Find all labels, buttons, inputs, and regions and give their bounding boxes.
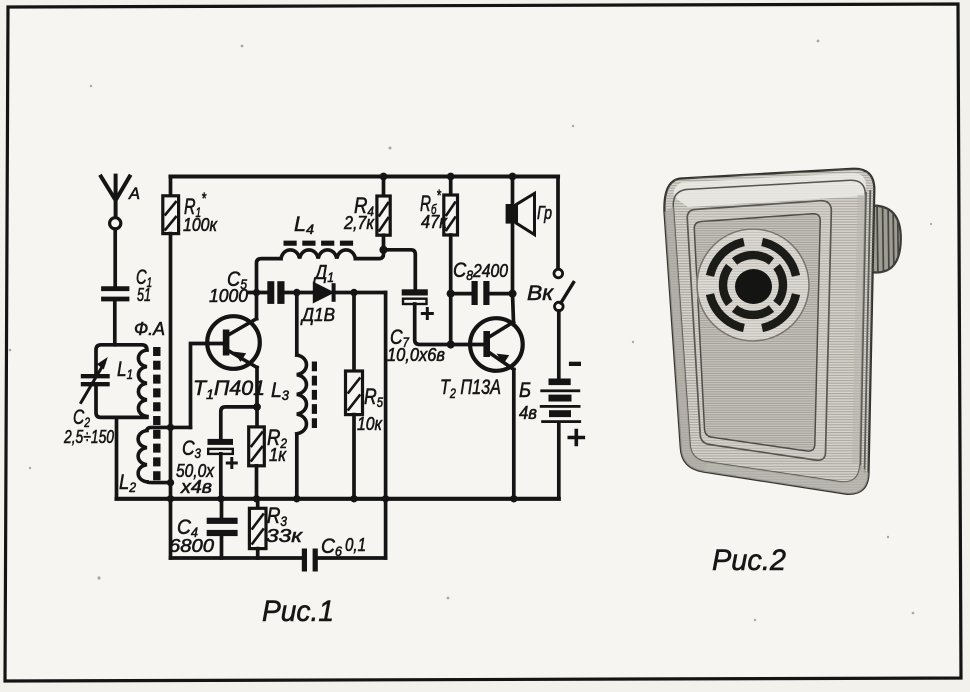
label C6 0,1 — [321, 535, 366, 559]
radio case body — [664, 169, 874, 494]
capacitor C1 — [104, 289, 128, 345]
resistor R6 — [444, 177, 458, 345]
right inner shade — [852, 195, 865, 465]
junction node C6 leg rail — [382, 495, 389, 502]
transistor T2 П13А — [470, 318, 523, 371]
label C2 2,5÷150 — [63, 406, 114, 447]
label R6* 47к — [420, 186, 448, 232]
svg-text:0,1: 0,1 — [345, 535, 366, 555]
wire T1 emitter down to R2 — [255, 368, 259, 427]
wire switch to battery — [557, 311, 561, 379]
label R1* 100к — [183, 189, 218, 235]
inner seam line — [673, 180, 865, 482]
wire T2 collector to speaker node — [513, 294, 514, 322]
svg-text:Вк: Вк — [527, 282, 554, 305]
top face highlight — [674, 173, 866, 207]
diode Д1 Д1В — [314, 283, 386, 302]
core dashed L3 — [312, 362, 317, 429]
wire detector output down to C6 loop — [384, 293, 388, 559]
junction node C8 / speaker wire — [508, 290, 516, 298]
svg-text:47к: 47к — [421, 212, 448, 232]
capacitor C5 — [249, 281, 314, 304]
svg-text:Гр: Гр — [537, 203, 552, 223]
ferrite core dashed (Ф.А) — [153, 347, 160, 481]
core dashed L4 — [284, 241, 354, 246]
capacitor C4 — [207, 499, 238, 558]
svg-text:х4в: х4в — [180, 477, 212, 497]
svg-text:10,0х6в: 10,0х6в — [387, 345, 445, 365]
svg-text:1000: 1000 — [209, 286, 248, 306]
inductor L3 — [297, 355, 307, 434]
capacitor C6 — [302, 549, 318, 572]
junction node C4 rail — [217, 495, 224, 502]
wire tank bottom — [96, 386, 147, 417]
junction node T2 base / C7 / R6 — [447, 340, 455, 348]
svg-text:1к: 1к — [269, 445, 287, 465]
svg-text:С82400: С82400 — [453, 259, 508, 283]
wire L3 branch — [295, 293, 299, 356]
recessed front panel — [694, 214, 820, 451]
label R3 33к — [266, 503, 304, 546]
junction node L3 rail — [293, 495, 300, 502]
wire R4 node to C7 — [384, 250, 416, 289]
wire bottom loop — [171, 556, 386, 560]
junction node T2 emitter rail — [510, 495, 517, 502]
resistor R3 — [249, 499, 266, 558]
grille inner ring slots — [723, 255, 783, 315]
resistor R5 — [346, 371, 363, 499]
svg-text:100к: 100к — [183, 215, 218, 235]
wire R5 branch — [352, 293, 356, 372]
wire top rail right corner to switch — [556, 177, 560, 270]
svg-text:4в: 4в — [519, 403, 537, 423]
junction node L3 top — [293, 289, 300, 296]
capacitor C2 (variable) — [81, 357, 108, 403]
svg-text:6800: 6800 — [169, 536, 214, 556]
battery minus — [569, 362, 581, 366]
junction node R4 bottom / L4 / C7 — [379, 246, 387, 254]
svg-text:Ф.А: Ф.А — [134, 319, 165, 339]
svg-text:А: А — [128, 184, 140, 203]
wire C3 branch — [221, 407, 257, 439]
resistor R1 — [163, 177, 179, 559]
junction node T1 emitter / R2 / C3 — [253, 403, 261, 411]
wire top rail — [171, 174, 559, 178]
transistor T1 П401 — [207, 316, 260, 369]
junction node L2 bottom — [167, 479, 174, 486]
svg-text:33к: 33к — [266, 526, 304, 546]
grille outer ring slots — [710, 242, 796, 328]
svg-text:Рис.2: Рис.2 — [712, 544, 786, 577]
bezel ridge — [687, 201, 831, 460]
wire base network T1 — [191, 344, 223, 428]
wire tank to ground rail — [115, 417, 119, 498]
battery Б 4в — [540, 379, 581, 499]
label R4 2,7к — [343, 193, 375, 233]
left side shade — [665, 207, 708, 472]
battery plus — [569, 431, 583, 445]
svg-text:Т1П401: Т1П401 — [193, 377, 265, 402]
speaker grille backplate — [696, 228, 810, 342]
wire main bottom rail — [117, 497, 559, 501]
grille center hole — [735, 269, 772, 304]
label C7 10,0х6в — [387, 326, 445, 365]
loudspeaker Гр — [506, 177, 535, 294]
label C1 51 — [136, 266, 152, 305]
resistor R2 — [249, 427, 265, 499]
junction node R1 leg rail — [167, 495, 174, 502]
antenna A — [101, 176, 130, 287]
label R5 10к — [357, 384, 383, 434]
case right edge lines — [860, 190, 870, 473]
svg-text:2,7к: 2,7к — [343, 213, 375, 233]
inductor L1 — [138, 350, 146, 416]
body halftone shading — [664, 169, 874, 494]
svg-text:Рис.1: Рис.1 — [262, 595, 334, 628]
junction node R5 rail — [350, 495, 357, 502]
label C5 1000 — [209, 268, 248, 306]
tuning knob — [870, 202, 901, 278]
capacitor C3 (electrolytic) — [208, 439, 237, 499]
junction node R2 rail — [253, 495, 260, 502]
resistor R4 — [377, 177, 390, 250]
capacitor C8 — [451, 281, 513, 305]
switch Вк — [554, 269, 574, 311]
junction node C5 / L4 / T1 collector — [253, 289, 260, 296]
junction node L2 top / base wire / R1 — [167, 424, 174, 431]
wire L4 right leg to R4 node — [355, 250, 383, 259]
label C3 50,0х х4в — [176, 437, 215, 497]
svg-text:Т2 П13А: Т2 П13А — [440, 376, 501, 401]
svg-text:2,5÷150: 2,5÷150 — [63, 427, 114, 447]
wire L4 left leg — [257, 259, 282, 293]
label C4 6800 — [169, 516, 214, 556]
label R2 1к — [267, 425, 287, 465]
inductor L2 — [138, 427, 190, 482]
capacitor C7 (electrolytic) — [402, 289, 484, 344]
junction node speaker top rail — [509, 173, 517, 181]
svg-text:10к: 10к — [357, 414, 383, 434]
wire T2 emitter to rail — [512, 370, 516, 499]
inductor L4 — [281, 250, 355, 259]
wire T1 collector up to C5 node — [255, 293, 259, 319]
junction node R6 top rail — [447, 173, 455, 181]
wire tank top — [96, 345, 147, 374]
svg-text:Д1В: Д1В — [300, 305, 335, 325]
junction node R6 / C8 — [447, 290, 455, 298]
bottom side shade — [703, 462, 869, 494]
svg-text:51: 51 — [137, 285, 151, 305]
junction node R5 top — [350, 289, 357, 296]
svg-text:Б: Б — [519, 379, 531, 402]
wire L3 to rail — [295, 434, 299, 499]
junction node R4 top rail — [380, 173, 388, 181]
